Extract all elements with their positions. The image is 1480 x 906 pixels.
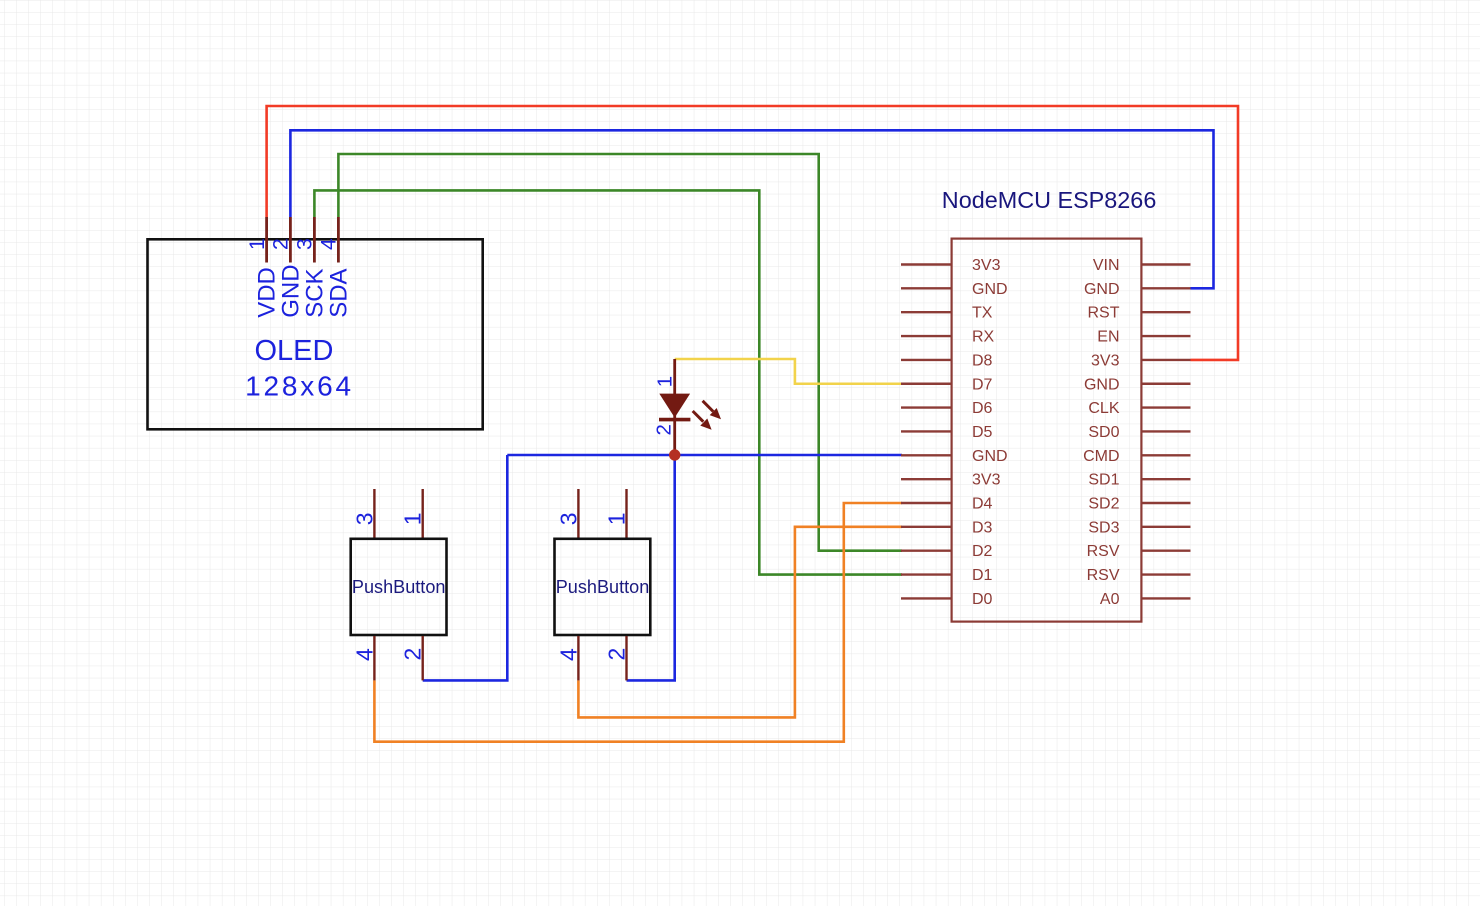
OLED body	[148, 239, 483, 429]
svg-text:RSV: RSV	[1087, 567, 1120, 584]
svg-text:GND: GND	[277, 264, 304, 317]
svg-text:D2: D2	[972, 543, 993, 560]
PushButton1 pin 1	[422, 489, 424, 538]
NodeMCU right pin GND (row 2)	[1084, 281, 1191, 298]
NodeMCU right pin SD0 (row 8)	[1088, 424, 1190, 441]
NodeMCU left pin D8 (row 5)	[901, 352, 993, 369]
NodeMCU left pin GND (row 2)	[901, 281, 1008, 298]
wire GND branch (blue) to PushButton2 pin2	[627, 455, 675, 680]
wire GND branch (blue) to PushButton1 pin2	[423, 455, 508, 680]
wire SCK net (green): OLED pin3 to NodeMCU D1	[314, 190, 902, 574]
svg-text:CLK: CLK	[1088, 400, 1119, 417]
NodeMCU left pin D7 (row 6)	[901, 376, 993, 393]
NodeMCU right pin SD3 (row 12)	[1088, 519, 1190, 536]
PushButton S1	[351, 489, 447, 680]
NodeMCU right pin VIN (row 1)	[1093, 257, 1191, 274]
svg-text:RSV: RSV	[1087, 543, 1120, 560]
svg-text:PushButton: PushButton	[556, 577, 650, 597]
svg-text:SD1: SD1	[1088, 472, 1119, 489]
svg-text:SD2: SD2	[1088, 496, 1119, 513]
svg-text:SD3: SD3	[1088, 519, 1119, 536]
wire D4 net (orange): PushButton1 pin4 to NodeMCU D4	[374, 503, 902, 742]
PushButton1 pin 2	[422, 636, 424, 680]
svg-text:RX: RX	[972, 329, 995, 346]
PushButton2 pin 4	[577, 636, 579, 680]
PushButton2 body	[555, 539, 651, 635]
svg-text:4: 4	[555, 648, 581, 661]
NodeMCU right pin CMD (row 9)	[1083, 448, 1190, 465]
svg-text:3V3: 3V3	[972, 472, 1001, 489]
svg-text:A0: A0	[1100, 591, 1120, 608]
PushButton1 pin 3	[373, 489, 375, 538]
svg-text:4: 4	[318, 238, 341, 250]
svg-text:D6: D6	[972, 400, 993, 417]
NodeMCU left pin 3V3 (row 1)	[901, 257, 1001, 274]
svg-text:1: 1	[654, 376, 677, 387]
svg-text:2: 2	[400, 648, 426, 661]
svg-text:D8: D8	[972, 352, 993, 369]
NodeMCU left pin D2 (row 13)	[901, 543, 993, 560]
svg-text:GND: GND	[1084, 376, 1120, 393]
NodeMCU right pin A0 (row 15)	[1100, 591, 1191, 608]
NodeMCU right pin EN (row 4)	[1097, 329, 1190, 346]
PushButton1 body	[351, 539, 447, 635]
svg-text:OLED: OLED	[255, 335, 334, 367]
NodeMCU right pin RSV (row 13)	[1087, 543, 1191, 560]
wire GND bus (blue horizontal) to NodeMCU GND	[507, 454, 902, 457]
wire D3 net (orange): PushButton2 pin4 to NodeMCU D3	[578, 527, 902, 718]
OLED pin 1 VDD	[265, 217, 268, 263]
NodeMCU right pin RSV (row 14)	[1087, 567, 1191, 584]
NodeMCU ESP8266 module U2	[901, 187, 1191, 622]
NodeMCU right pin CLK (row 7)	[1088, 400, 1190, 417]
svg-text:128x64: 128x64	[245, 370, 354, 401]
svg-text:SDA: SDA	[325, 268, 352, 317]
svg-text:GND: GND	[1084, 281, 1120, 298]
svg-text:PushButton: PushButton	[352, 577, 446, 597]
NodeMCU right pin SD1 (row 10)	[1088, 472, 1190, 489]
svg-text:3: 3	[555, 512, 581, 525]
svg-text:SD0: SD0	[1088, 424, 1119, 441]
svg-text:3: 3	[294, 238, 317, 250]
OLED 128x64 display module U1	[148, 217, 483, 429]
svg-text:VIN: VIN	[1093, 257, 1120, 274]
svg-text:2: 2	[270, 238, 293, 250]
svg-text:EN: EN	[1097, 329, 1119, 346]
LED D1 (red)	[653, 359, 721, 452]
NodeMCU right pin 3V3 (row 5)	[1091, 352, 1190, 369]
NodeMCU right pin RST (row 3)	[1088, 305, 1191, 322]
NodeMCU left pin D1 (row 14)	[901, 567, 993, 584]
svg-text:D5: D5	[972, 424, 993, 441]
svg-text:NodeMCU ESP8266: NodeMCU ESP8266	[942, 187, 1157, 213]
svg-text:GND: GND	[972, 448, 1008, 465]
NodeMCU left pin D0 (row 15)	[901, 591, 993, 608]
LED anode triangle	[659, 394, 690, 418]
svg-text:1: 1	[603, 512, 629, 525]
wire SDA net (green): OLED pin4 to NodeMCU D2	[338, 154, 902, 551]
svg-text:3V3: 3V3	[972, 257, 1001, 274]
LED cathode bar	[659, 418, 690, 422]
svg-text:2: 2	[603, 648, 629, 661]
NodeMCU right pin SD2 (row 11)	[1088, 496, 1190, 513]
svg-text:GND: GND	[972, 281, 1008, 298]
svg-text:SCK: SCK	[301, 268, 328, 317]
NodeMCU left pin D3 (row 12)	[901, 519, 993, 536]
OLED pin 4 SDA	[337, 217, 340, 263]
svg-text:2: 2	[653, 424, 676, 435]
NodeMCU left pin D6 (row 7)	[901, 400, 993, 417]
svg-text:1: 1	[400, 512, 426, 525]
NodeMCU left pin RX (row 4)	[901, 329, 995, 346]
wire VDD net (red): OLED pin1 to NodeMCU right 3V3	[267, 106, 1238, 360]
PushButton2 pin 3	[577, 489, 579, 538]
svg-text:D7: D7	[972, 376, 993, 393]
NodeMCU left pin GND (row 9)	[901, 448, 1008, 465]
wire GND net (blue): OLED pin2 to NodeMCU right GND	[290, 130, 1213, 288]
LED light arrow 2	[693, 411, 704, 422]
NodeMCU right pin GND (row 6)	[1084, 376, 1191, 393]
PushButton1 pin 4	[373, 636, 375, 680]
svg-text:1: 1	[246, 238, 269, 250]
NodeMCU left pin D4 (row 11)	[901, 496, 993, 513]
svg-text:CMD: CMD	[1083, 448, 1119, 465]
PushButton2 pin 1	[625, 489, 627, 538]
PushButton2 pin 2	[625, 636, 627, 680]
svg-text:3V3: 3V3	[1091, 352, 1120, 369]
LED pin line	[673, 359, 676, 452]
NodeMCU left pin 3V3 (row 10)	[901, 472, 1001, 489]
svg-text:D4: D4	[972, 496, 993, 513]
svg-text:RST: RST	[1088, 305, 1120, 322]
svg-text:D3: D3	[972, 519, 993, 536]
PushButton S2	[555, 489, 651, 680]
svg-text:D1: D1	[972, 567, 993, 584]
wire LED anode net (yellow): LED pin1 to NodeMCU D7	[675, 359, 902, 384]
svg-text:3: 3	[351, 512, 377, 525]
NodeMCU left pin TX (row 3)	[901, 305, 993, 322]
svg-text:4: 4	[351, 648, 377, 661]
OLED pin 2 GND	[289, 217, 292, 263]
LED light arrow 1	[703, 401, 714, 412]
svg-text:D0: D0	[972, 591, 993, 608]
NodeMCU left pin D5 (row 8)	[901, 424, 993, 441]
NodeMCU body	[952, 239, 1142, 622]
OLED pin 3 SCK	[313, 217, 316, 263]
junction node: LED cathode / GND bus	[669, 449, 680, 460]
svg-text:TX: TX	[972, 305, 993, 322]
